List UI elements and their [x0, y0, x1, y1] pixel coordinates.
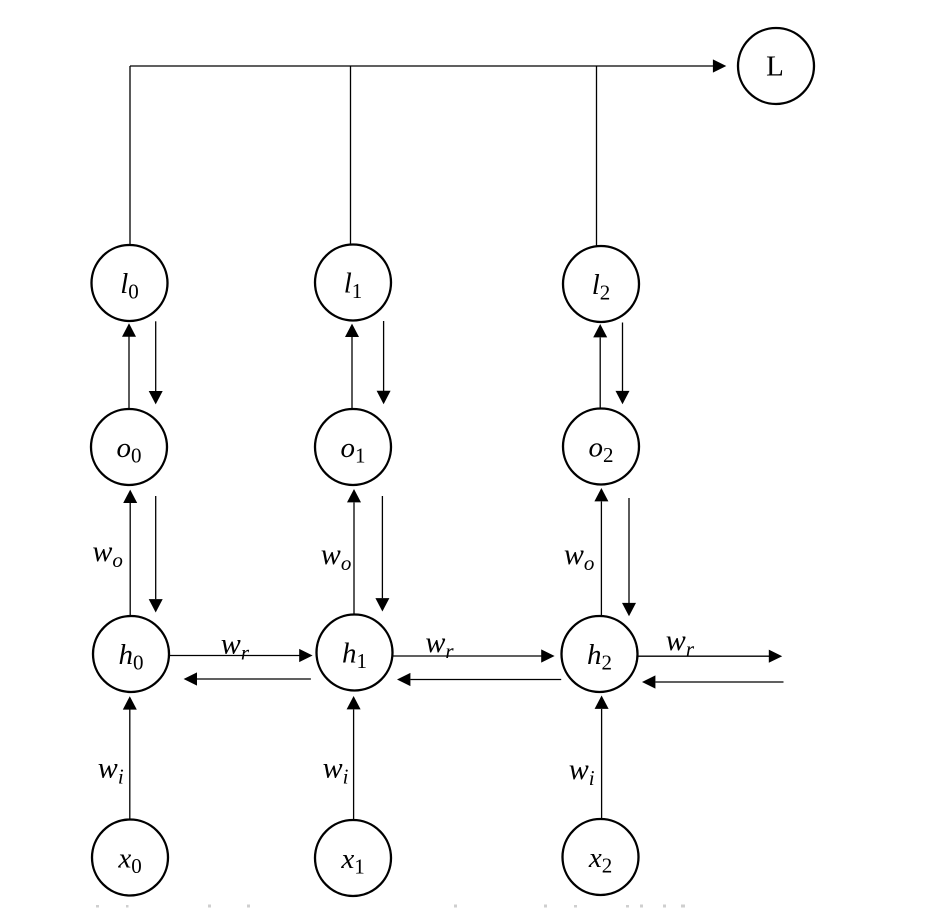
arrow o0 to h0 (down) — [149, 496, 163, 613]
node o2 — [563, 409, 639, 485]
node h1 — [317, 615, 393, 691]
node l0 — [92, 245, 168, 321]
node o0 — [91, 409, 167, 485]
node l1 — [315, 245, 391, 321]
node L — [738, 28, 814, 104]
wire top bus horizontal — [130, 65, 713, 67]
node l2 — [563, 246, 639, 322]
node h0 — [93, 616, 169, 692]
arrow h1 to h2 (forward, w_r) — [393, 649, 555, 662]
arrow h2 to h1 (return) — [397, 673, 561, 686]
arrow o2 to h2 (down) — [622, 498, 636, 616]
arrow x0 to h0 (up, w_i) — [123, 696, 137, 819]
arrowhead into L — [713, 59, 726, 72]
arrow h1 to h0 (return) — [184, 672, 311, 685]
node o1 — [315, 409, 391, 485]
arrow x1 to h1 (up, w_i) — [347, 696, 361, 820]
arrow l1 to o1 (down) — [377, 321, 391, 404]
wire drop column 2 — [596, 66, 598, 246]
arrow o1 to l1 (up) — [345, 324, 359, 409]
arrow next to h2 (return) — [642, 675, 784, 688]
node x0 — [92, 820, 168, 896]
arrow l0 to o0 (down) — [149, 321, 163, 404]
arrow x2 to h2 (up, w_i) — [595, 696, 609, 820]
wire drop column 0 — [129, 66, 131, 245]
arrow o0 to l0 (up) — [122, 323, 136, 409]
arrow h0 to o0 (up, w_o) — [123, 490, 137, 616]
wire drop column 1 — [350, 66, 352, 245]
arrow h2 to o2 (up, w_o) — [594, 488, 608, 616]
arrow h0 to h1 (forward, w_r) — [170, 649, 313, 662]
node x2 — [563, 819, 639, 895]
cropped caption remnants at bottom edge — [96, 905, 685, 908]
svg-text:L: L — [766, 51, 784, 83]
node x1 — [315, 820, 391, 896]
node h2 — [562, 616, 638, 692]
arrow h1 to o1 (up, w_o) — [347, 489, 361, 615]
arrow h2 to next (forward, w_r) — [639, 650, 783, 663]
arrow o2 to l2 (up) — [593, 324, 607, 409]
arrow l2 to o2 (down) — [616, 323, 630, 405]
arrow o1 to h1 (down) — [375, 496, 389, 612]
